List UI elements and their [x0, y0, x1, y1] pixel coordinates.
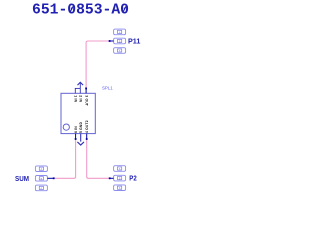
SPL1 bottom pin 5 stub	[80, 134, 82, 142]
junction dot bottom pin 4	[86, 138, 88, 140]
connector P2 pin 1	[114, 166, 126, 172]
title 651-0853-A0	[32, 2, 129, 19]
SPL1 top pin labels	[73, 95, 88, 106]
connector P11 pin 3	[114, 48, 126, 54]
SPL1 top pin 1 stub	[74, 88, 76, 93]
junction dot at P11	[109, 40, 111, 42]
connector P2 pin 2	[114, 175, 126, 181]
junction dot at SPL1 top pin 3	[85, 88, 87, 90]
svg-text:4 OUT2: 4 OUT2	[85, 120, 89, 133]
SPL1 top pin 3 stub	[85, 88, 87, 93]
svg-text:1 IN: 1 IN	[73, 95, 77, 102]
wire net P11 pin2 to SPL1 top pin 3	[86, 41, 109, 88]
SPL1 bottom pin 4 stub	[86, 134, 88, 139]
wire SPL1 bottom pin 4 to P2 pin2	[87, 139, 110, 178]
connector P2 pin 3	[114, 185, 126, 191]
SUM pin2 stub	[47, 177, 53, 179]
IC SPL1 body	[61, 93, 95, 133]
SPL1 bottom pin labels	[74, 120, 89, 133]
connector P11 pin 1	[114, 29, 126, 35]
ground arrow down	[77, 142, 84, 145]
power rail tie bar	[75, 87, 80, 89]
svg-text:3 OUT: 3 OUT	[84, 95, 88, 106]
SPL1 top pin 2 stub	[79, 88, 81, 93]
svg-text:SPL1: SPL1	[102, 86, 113, 91]
connector SUM pin 1	[35, 166, 47, 172]
connector SUM pin 3	[35, 185, 47, 191]
connector P11 pin 2	[114, 38, 126, 44]
connector SUM pin 2	[35, 176, 47, 182]
junction dot at SUM	[53, 177, 55, 179]
power arrow up	[78, 82, 84, 88]
P2 pin2 stub	[110, 177, 114, 179]
P11 pin2 stub	[110, 40, 114, 42]
svg-text:P11: P11	[128, 37, 141, 46]
svg-text:P2: P2	[129, 174, 136, 183]
svg-text:2 IN: 2 IN	[78, 95, 82, 102]
junction dot bottom pin 6	[75, 138, 77, 140]
junction dot at P2	[109, 177, 111, 179]
wire SPL1 bottom pin 6 to SUM pin2	[53, 139, 75, 178]
svg-text:SUM: SUM	[15, 174, 29, 183]
SPL1 bottom pin 6 stub	[75, 134, 77, 139]
svg-text:5 GND: 5 GND	[79, 122, 83, 133]
svg-text:6 IN: 6 IN	[74, 126, 78, 133]
svg-text:651-0853-A0: 651-0853-A0	[32, 2, 129, 19]
